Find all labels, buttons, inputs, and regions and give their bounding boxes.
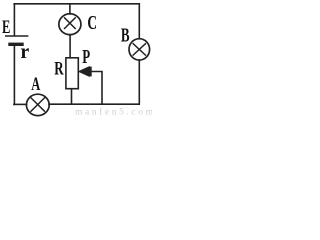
svg-text:A: A bbox=[31, 75, 40, 95]
svg-text:R: R bbox=[54, 58, 64, 79]
svg-text:E: E bbox=[2, 18, 10, 38]
svg-text:C: C bbox=[87, 11, 97, 33]
svg-text:r: r bbox=[20, 40, 29, 63]
svg-text:P: P bbox=[82, 45, 90, 68]
svg-text:B: B bbox=[121, 24, 130, 47]
svg-text:manfen5.com: manfen5.com bbox=[75, 107, 152, 117]
